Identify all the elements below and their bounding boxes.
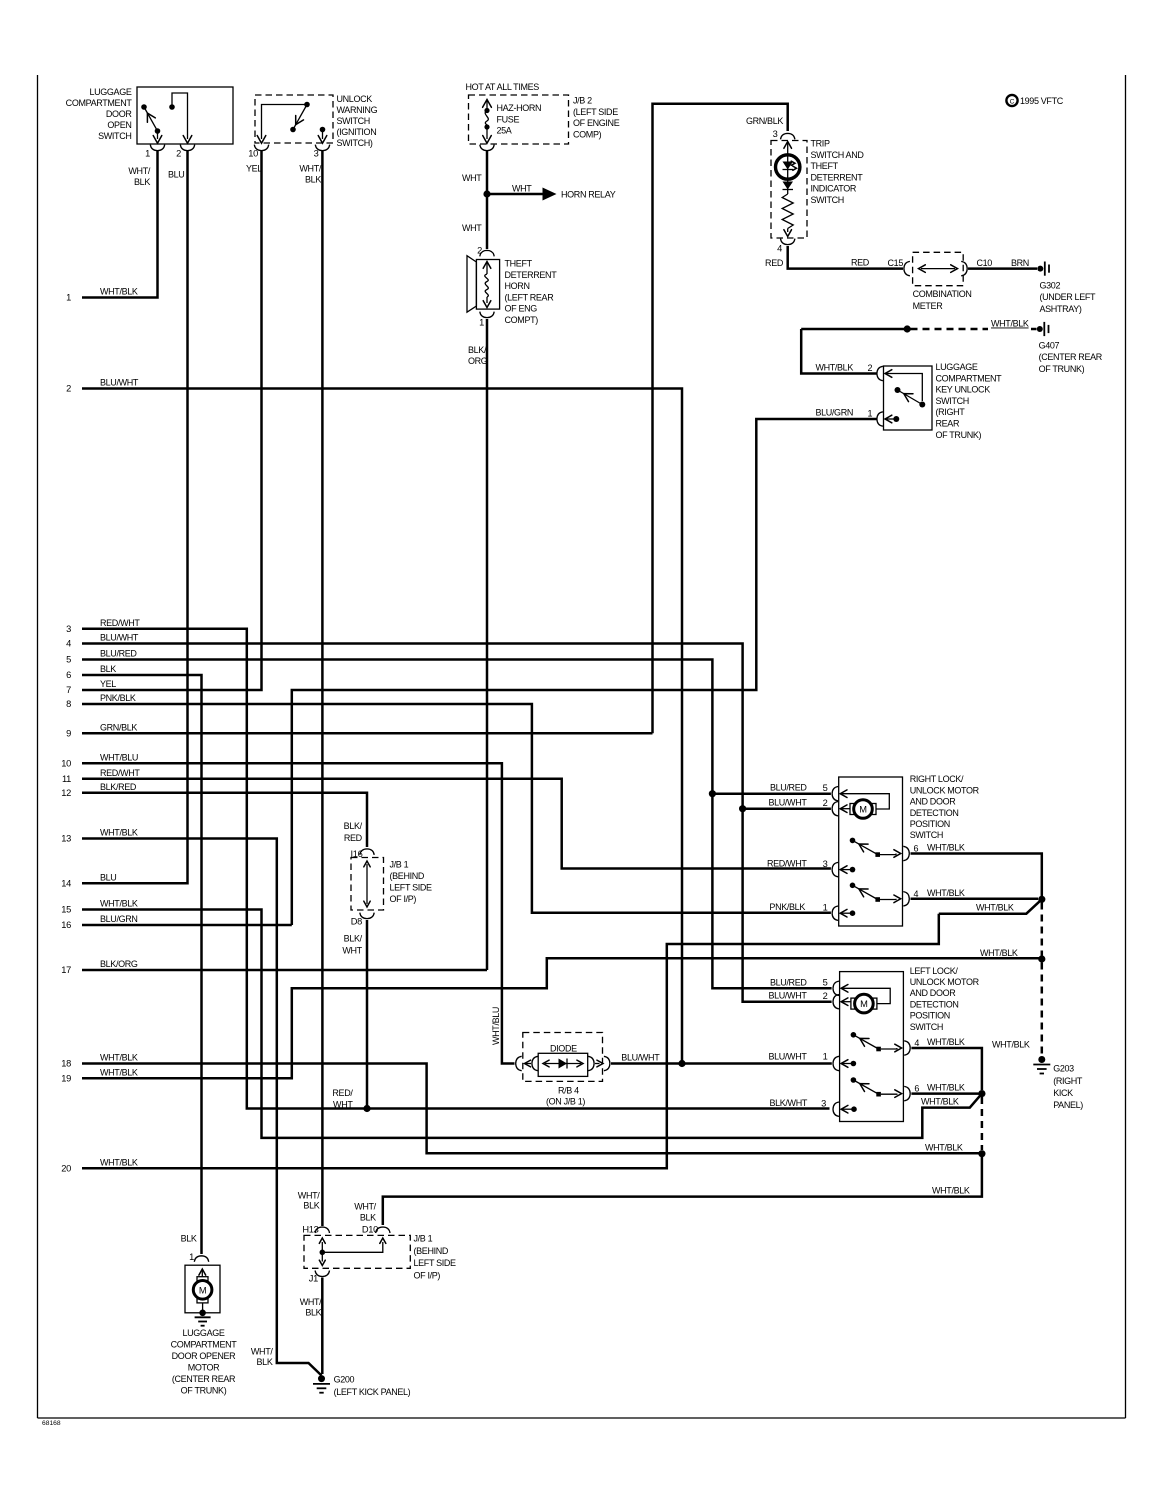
- theft deterrent horn body box: [476, 260, 499, 310]
- svg-text:3: 3: [823, 859, 828, 869]
- svg-text:(BEHIND: (BEHIND: [414, 1246, 449, 1256]
- svg-text:BLU: BLU: [168, 170, 184, 180]
- svg-text:16: 16: [61, 920, 71, 930]
- border left: [37, 75, 39, 1418]
- wire 8 PNK/BLK: [82, 704, 831, 913]
- JB1 internal H13 arrow: [319, 1238, 325, 1252]
- wire WHT/BLK slant to junction: [939, 899, 1042, 913]
- svg-text:OF TRUNK): OF TRUNK): [181, 1386, 227, 1396]
- svg-text:(CENTER REAR: (CENTER REAR: [1039, 352, 1103, 362]
- svg-text:4: 4: [777, 244, 782, 254]
- svg-text:UNLOCK: UNLOCK: [337, 94, 373, 104]
- wire label BLK/RED JB1: [344, 821, 363, 843]
- svg-text:KEY UNLOCK: KEY UNLOCK: [936, 385, 991, 395]
- svg-text:4: 4: [66, 639, 71, 649]
- svg-text:WHT/: WHT/: [298, 1190, 320, 1200]
- svg-text:14: 14: [61, 879, 71, 889]
- key switch lever: [895, 387, 923, 405]
- fuse HAZ-HORN 25A symbol: [483, 100, 492, 144]
- svg-text:19: 19: [61, 1074, 71, 1084]
- right motor pin3 internal: [840, 866, 855, 874]
- wire 18 WHT/BLK: [82, 1064, 982, 1154]
- node WHT junction: [483, 190, 490, 197]
- node 3 wire RED/WHT: [66, 618, 140, 634]
- svg-text:SWITCH: SWITCH: [811, 195, 844, 205]
- svg-text:HORN RELAY: HORN RELAY: [561, 190, 616, 200]
- svg-text:INDICATOR: INDICATOR: [811, 184, 857, 194]
- left lock switch1 pole: [851, 1032, 857, 1038]
- svg-text:BLK/: BLK/: [468, 345, 487, 355]
- node 20 wire WHT/BLK: [61, 1158, 138, 1174]
- svg-text:REAR: REAR: [936, 419, 960, 429]
- svg-text:POSITION: POSITION: [910, 1011, 950, 1021]
- svg-text:(UNDER LEFT: (UNDER LEFT: [1040, 292, 1097, 302]
- wire 9 GRN/BLK: [82, 732, 653, 735]
- right motor pin1 connector: [832, 906, 838, 920]
- svg-text:DETECTION: DETECTION: [910, 808, 959, 818]
- svg-text:(IGNITION: (IGNITION: [337, 127, 377, 137]
- S1 pin2 connector: [180, 145, 194, 151]
- svg-text:WHT/BLK: WHT/BLK: [815, 363, 853, 373]
- svg-text:COMPARTMENT: COMPARTMENT: [936, 373, 1003, 383]
- svg-text:AND DOOR: AND DOOR: [910, 797, 957, 807]
- svg-text:COMP): COMP): [573, 129, 602, 139]
- JB1 D10 connector: [376, 1227, 390, 1233]
- svg-text:WHT/BLK: WHT/BLK: [991, 319, 1029, 329]
- wire 20 WHT/BLK: [82, 914, 939, 1169]
- right lock unlock motor box: [839, 777, 903, 926]
- svg-text:OF TRUNK): OF TRUNK): [936, 430, 982, 440]
- svg-text:25A: 25A: [497, 126, 512, 136]
- svg-text:BLK/: BLK/: [344, 934, 363, 944]
- svg-text:C15: C15: [888, 258, 904, 268]
- svg-text:J/B 1: J/B 1: [390, 860, 409, 870]
- wire label WHT/BLK D10: [354, 1202, 376, 1223]
- svg-text:SWITCH: SWITCH: [910, 830, 943, 840]
- svg-text:HAZ-HORN: HAZ-HORN: [497, 103, 542, 113]
- svg-text:WHT/BLK: WHT/BLK: [100, 1068, 138, 1078]
- svg-text:SWITCH: SWITCH: [98, 131, 131, 141]
- svg-text:15: 15: [61, 905, 71, 915]
- JB1 internal node: [320, 1250, 326, 1256]
- left motor pin6 connector: [904, 1086, 910, 1100]
- svg-text:J1: J1: [309, 1274, 318, 1284]
- wire 4 BLU/WHT: [82, 644, 832, 1002]
- svg-text:WHT/BLK: WHT/BLK: [932, 1186, 970, 1196]
- svg-text:8: 8: [66, 699, 71, 709]
- wire 10 WHT/BLU: [82, 763, 515, 1063]
- key unlock switch pin1 connector: [877, 412, 883, 426]
- svg-text:BLK: BLK: [303, 1201, 319, 1211]
- S1 pin1 connector: [150, 145, 164, 151]
- svg-text:(CENTER REAR: (CENTER REAR: [172, 1374, 236, 1384]
- node right lock ground junction: [1038, 896, 1045, 903]
- svg-text:12: 12: [61, 788, 71, 798]
- node 16 wire BLU/GRN: [61, 914, 137, 930]
- svg-text:BLU/WHT: BLU/WHT: [100, 378, 139, 388]
- svg-text:68168: 68168: [42, 1420, 61, 1427]
- svg-text:BLU/RED: BLU/RED: [770, 977, 807, 987]
- svg-text:YEL: YEL: [246, 164, 262, 174]
- svg-text:3: 3: [314, 149, 319, 159]
- svg-text:KICK: KICK: [1053, 1088, 1073, 1098]
- opener motor case ground: [195, 1310, 211, 1326]
- wire label BLK/WHT D8: [342, 934, 362, 956]
- right motor pin5 connector: [832, 787, 838, 801]
- wire 2 BLU/WHT: [82, 389, 682, 1064]
- svg-text:RED: RED: [765, 258, 784, 268]
- node D8 to RED/WHT junction: [363, 1105, 370, 1112]
- JB1 internal cross wire: [322, 1238, 386, 1252]
- opener motor internal: [193, 1269, 212, 1313]
- S2 internal wire pin10: [257, 105, 307, 144]
- svg-text:13: 13: [61, 834, 71, 844]
- wire 15 WHT/BLK: [82, 910, 982, 1138]
- svg-text:(LEFT KICK PANEL): (LEFT KICK PANEL): [334, 1387, 411, 1397]
- wire 13 WHT/BLK: [82, 839, 322, 1376]
- svg-text:BLK/WHT: BLK/WHT: [769, 1098, 807, 1108]
- J/B 1 internal arrow: [364, 861, 370, 907]
- svg-text:J/B 2: J/B 2: [573, 96, 592, 106]
- wire GRN/BLK top feed: [653, 104, 788, 734]
- wire WHT/BLK solid to splice: [801, 328, 907, 331]
- JB1 I16 connector: [360, 849, 374, 855]
- svg-text:YEL: YEL: [100, 679, 116, 689]
- wire RED trip to meter: [788, 246, 903, 269]
- svg-text:BLU: BLU: [100, 873, 116, 883]
- wire 3 RED/WHT: [82, 629, 830, 1109]
- svg-text:(RIGHT: (RIGHT: [936, 407, 966, 417]
- svg-text:ORG: ORG: [468, 356, 488, 366]
- left motor pin5 internal: [841, 985, 890, 1004]
- wire 12 BLK/RED: [82, 793, 367, 847]
- svg-text:WHT/: WHT/: [300, 1297, 322, 1307]
- svg-text:WHT: WHT: [333, 1100, 353, 1110]
- svg-text:WHT/BLK: WHT/BLK: [100, 1158, 138, 1168]
- svg-text:2: 2: [823, 798, 828, 808]
- svg-text:WHT/BLK: WHT/BLK: [921, 1097, 959, 1107]
- right motor pin6 connector: [903, 846, 909, 860]
- wire WHT/BLK J1 to G200: [321, 1278, 324, 1375]
- svg-text:M: M: [860, 999, 867, 1009]
- svg-text:1: 1: [66, 293, 71, 303]
- svg-text:C: C: [1010, 99, 1015, 106]
- svg-text:DOOR: DOOR: [106, 109, 132, 119]
- R/B 4 label: [546, 1085, 585, 1106]
- key unlock switch pin2 connector: [877, 366, 883, 380]
- J/B 2 dashed box: [469, 95, 569, 144]
- wire WHT junction to horn: [486, 194, 489, 249]
- svg-text:6: 6: [914, 1084, 919, 1094]
- svg-text:WHT/: WHT/: [128, 166, 150, 176]
- svg-text:COMBINATION: COMBINATION: [913, 289, 972, 299]
- node splice G407: [904, 325, 911, 332]
- svg-text:4: 4: [914, 1038, 919, 1048]
- wire 5 BLU/RED: [82, 660, 832, 989]
- luggage compartment key unlock switch box: [884, 366, 933, 430]
- svg-text:G407: G407: [1039, 341, 1060, 351]
- wire BLU/WHT diode out: [611, 1062, 832, 1065]
- svg-text:SWITCH: SWITCH: [936, 396, 969, 406]
- wire BLU/GRN key switch chain: [292, 419, 877, 925]
- svg-text:18: 18: [61, 1059, 71, 1069]
- JB1 D8 connector: [360, 913, 374, 919]
- svg-text:OPEN: OPEN: [107, 120, 131, 130]
- svg-text:(BEHIND: (BEHIND: [390, 871, 425, 881]
- wire label WHT/BLK H13: [298, 1190, 320, 1210]
- combination meter dashed box: [913, 252, 964, 285]
- diode input connectors: [516, 1056, 538, 1070]
- svg-text:PNK/BLK: PNK/BLK: [100, 693, 136, 703]
- JB1 H13 connector: [315, 1227, 329, 1233]
- left lock switch1 output: [881, 1044, 902, 1052]
- wire WHT/BLK G407 branch down: [801, 329, 876, 374]
- wire BLK/WHT D8 down: [366, 920, 369, 1109]
- svg-text:MOTOR: MOTOR: [188, 1363, 220, 1373]
- svg-text:3: 3: [773, 129, 778, 139]
- right lock switch2 lever: [853, 885, 881, 902]
- node 14 wire BLU: [61, 873, 116, 889]
- node 8 wire PNK/BLK: [66, 693, 136, 709]
- svg-text:G200: G200: [334, 1375, 355, 1385]
- wire 14 BLU: [82, 150, 188, 883]
- wire WHT to horn relay: [487, 188, 557, 201]
- J/B 1 dashed box I16-D8: [351, 858, 384, 911]
- svg-text:5: 5: [823, 978, 828, 988]
- svg-text:M: M: [859, 805, 866, 815]
- node 1 wire WHT/BLK: [66, 287, 138, 303]
- svg-text:SWITCH: SWITCH: [337, 116, 370, 126]
- node 11 wire RED/WHT: [62, 768, 140, 784]
- svg-text:BRN: BRN: [1011, 258, 1029, 268]
- svg-text:DETECTION: DETECTION: [910, 999, 959, 1009]
- right motor pin3 connector: [832, 862, 838, 876]
- J/B 1 dashed box H13-J1: [304, 1235, 410, 1268]
- wire WHT/BLK pin3 to H13: [321, 150, 324, 1226]
- svg-text:BLU/WHT: BLU/WHT: [768, 798, 807, 808]
- svg-text:RIGHT LOCK/: RIGHT LOCK/: [910, 774, 964, 784]
- ground G302 symbol: [1037, 262, 1049, 276]
- key switch lower contact: [919, 402, 925, 408]
- svg-text:LEFT SIDE: LEFT SIDE: [414, 1258, 457, 1268]
- luggage compartment door open switch S1 box: [137, 87, 233, 144]
- left motor pin3 connector: [833, 1102, 839, 1116]
- svg-text:J/B 1: J/B 1: [414, 1234, 433, 1244]
- svg-text:BLU/GRN: BLU/GRN: [815, 408, 853, 418]
- svg-text:1: 1: [189, 1252, 194, 1262]
- svg-text:WHT: WHT: [342, 946, 362, 956]
- svg-text:1: 1: [479, 318, 484, 328]
- svg-text:AND DOOR: AND DOOR: [910, 988, 957, 998]
- node 19 wire WHT/BLK: [61, 1068, 138, 1084]
- svg-text:BLK/: BLK/: [344, 821, 363, 831]
- wire WHT/BLK pin4 left: [911, 1048, 982, 1090]
- right motor M symbol: [850, 800, 876, 819]
- node 15 wire WHT/BLK: [61, 899, 138, 915]
- svg-text:UNLOCK MOTOR: UNLOCK MOTOR: [910, 785, 980, 795]
- right motor pin5 internal: [840, 790, 889, 809]
- svg-text:BLK: BLK: [257, 1357, 273, 1367]
- node 12 wire BLK/RED: [61, 782, 137, 798]
- theft deterrent horn speaker cone: [467, 256, 476, 313]
- svg-text:RED/: RED/: [332, 1088, 353, 1098]
- diode output connectors: [588, 1056, 610, 1070]
- svg-text:2: 2: [66, 384, 71, 394]
- wire dashed to G203 upper: [1041, 903, 1044, 956]
- svg-text:(ON J/B 1): (ON J/B 1): [546, 1096, 585, 1106]
- S2 pin3 connector: [315, 145, 329, 151]
- copyright 1995 VFTC: [1006, 95, 1063, 106]
- svg-text:TRIP: TRIP: [811, 139, 830, 149]
- left motor pin2 connector: [833, 995, 839, 1009]
- combination meter connector C15: [904, 261, 910, 275]
- svg-text:BLK: BLK: [305, 1308, 321, 1318]
- svg-text:D8: D8: [351, 917, 362, 927]
- ground G203 symbol: [1033, 1056, 1050, 1074]
- svg-text:17: 17: [61, 965, 71, 975]
- svg-text:DETERRENT: DETERRENT: [505, 270, 558, 280]
- trip switch pin3 connector: [781, 133, 795, 139]
- wire dashed to G203 lower: [1041, 963, 1044, 1056]
- svg-text:BLU/RED: BLU/RED: [100, 649, 137, 659]
- wire WHT/BLK pin4 right: [911, 898, 1039, 901]
- left motor pin3 internal: [841, 1105, 857, 1113]
- svg-text:POSITION: POSITION: [910, 819, 950, 829]
- svg-text:BLU/WHT: BLU/WHT: [768, 991, 807, 1001]
- opener motor pin1 connector: [194, 1256, 208, 1262]
- horn pin2 connector: [480, 250, 494, 256]
- left lock unlock motor box: [840, 972, 904, 1122]
- svg-text:WHT/BLK: WHT/BLK: [992, 1040, 1030, 1050]
- S1 contact pole pin1: [141, 104, 147, 110]
- svg-text:5: 5: [823, 783, 828, 793]
- wire WHT/BLK dashed to G407: [911, 328, 1037, 331]
- svg-text:DOOR OPENER: DOOR OPENER: [172, 1351, 237, 1361]
- svg-text:WHT/BLK: WHT/BLK: [100, 899, 138, 909]
- right motor pin1 internal: [840, 909, 855, 917]
- left lock switch2 pole: [851, 1077, 857, 1083]
- left motor pin5 connector: [833, 981, 839, 995]
- svg-text:WHT/BLK: WHT/BLK: [980, 948, 1018, 958]
- wire 11 RED/WHT: [82, 779, 831, 869]
- ground G200 label: [334, 1375, 411, 1397]
- wire 6 BLK: [82, 675, 202, 1254]
- svg-text:7: 7: [66, 685, 71, 695]
- svg-text:FUSE: FUSE: [497, 114, 520, 124]
- svg-text:WHT/BLK: WHT/BLK: [100, 287, 138, 297]
- left lock switch2 lever: [853, 1080, 880, 1097]
- svg-text:WHT/BLK: WHT/BLK: [927, 1083, 965, 1093]
- svg-text:SWITCH: SWITCH: [910, 1022, 943, 1032]
- wire label RED/WHT lower: [332, 1088, 353, 1110]
- svg-text:1: 1: [823, 902, 828, 912]
- svg-text:OF I/P): OF I/P): [414, 1271, 441, 1281]
- svg-text:2: 2: [176, 149, 181, 159]
- svg-text:RED/WHT: RED/WHT: [100, 618, 140, 628]
- node 18 wire WHT/BLK: [61, 1053, 138, 1069]
- svg-text:RED/WHT: RED/WHT: [767, 859, 807, 869]
- node diode BLU/WHT junction: [678, 1060, 685, 1067]
- svg-text:HOT AT ALL TIMES: HOT AT ALL TIMES: [466, 82, 540, 92]
- luggage compartment door opener motor box: [185, 1265, 220, 1313]
- resistor symbol trip switch: [782, 194, 793, 237]
- svg-text:WHT/: WHT/: [299, 164, 321, 174]
- ground G200 symbol: [313, 1375, 330, 1393]
- svg-text:WHT/: WHT/: [251, 1346, 273, 1356]
- svg-text:LEFT SIDE: LEFT SIDE: [390, 883, 433, 893]
- svg-text:RED/WHT: RED/WHT: [100, 768, 140, 778]
- svg-text:11: 11: [62, 774, 71, 784]
- svg-text:HORN: HORN: [505, 281, 530, 291]
- node 13 wire WHT/BLK: [61, 828, 138, 844]
- svg-text:2: 2: [477, 246, 482, 256]
- left motor pin1 internal: [841, 1060, 856, 1068]
- node y958 junction: [1038, 955, 1045, 962]
- right lock switch1 pole: [850, 838, 856, 844]
- wire 16 BLU/GRN: [82, 924, 292, 927]
- svg-text:BLK: BLK: [134, 177, 150, 187]
- right lock switch1 lever: [853, 840, 881, 856]
- svg-text:4: 4: [914, 889, 919, 899]
- svg-text:RED: RED: [851, 258, 870, 268]
- border right: [1125, 75, 1127, 1418]
- combination meter connector C10: [961, 261, 967, 275]
- svg-text:THEFT: THEFT: [505, 259, 533, 269]
- wire BLK/ORG horn to wire17: [486, 319, 489, 970]
- R/B 4 dashed box: [523, 1033, 603, 1082]
- wire label WHT/BLK J1: [300, 1297, 322, 1317]
- svg-text:PNK/BLK: PNK/BLK: [769, 902, 805, 912]
- svg-text:M: M: [199, 1285, 206, 1295]
- svg-text:6: 6: [914, 844, 919, 854]
- diode internal symbol: [543, 1059, 583, 1069]
- S1 switch lever: [144, 107, 160, 134]
- node 4 wire BLU/WHT: [66, 633, 139, 649]
- node junction wire4 right pin2: [739, 805, 746, 812]
- svg-text:9: 9: [66, 729, 71, 739]
- svg-text:WHT/BLK: WHT/BLK: [927, 1037, 965, 1047]
- svg-text:WHT/BLK: WHT/BLK: [100, 1053, 138, 1063]
- svg-text:OF ENGINE: OF ENGINE: [573, 118, 620, 128]
- svg-text:BLU/WHT: BLU/WHT: [768, 1052, 807, 1062]
- S2 pin3 contact: [320, 127, 326, 133]
- diode symbol below LED: [783, 179, 794, 194]
- svg-text:BLU/WHT: BLU/WHT: [621, 1053, 660, 1063]
- node 17 wire BLK/ORG: [61, 959, 138, 975]
- wire WHT/BLK to D10: [383, 1154, 982, 1225]
- svg-text:METER: METER: [913, 301, 944, 311]
- wire 17 BLK/ORG: [82, 969, 487, 972]
- S1 pin1 stem: [153, 131, 162, 143]
- svg-text:LEFT LOCK/: LEFT LOCK/: [910, 966, 959, 976]
- svg-text:GRN/BLK: GRN/BLK: [746, 116, 783, 126]
- svg-text:COMPARTMENT: COMPARTMENT: [171, 1340, 238, 1350]
- horn internal coil: [483, 262, 491, 308]
- svg-text:LUGGAGE: LUGGAGE: [182, 1328, 224, 1338]
- svg-text:COMPT): COMPT): [505, 315, 539, 325]
- wire label WHT/BLK pin3: [299, 164, 321, 185]
- trip switch and theft deterrent indicator switch dashed box: [771, 141, 807, 239]
- node 10 wire WHT/BLU: [61, 753, 138, 769]
- horn pin1 connector: [480, 312, 494, 318]
- svg-text:ASHTRAY): ASHTRAY): [1040, 304, 1082, 314]
- svg-text:WHT/BLK: WHT/BLK: [927, 888, 965, 898]
- svg-text:UNLOCK MOTOR: UNLOCK MOTOR: [910, 977, 980, 987]
- svg-text:RED: RED: [344, 833, 363, 843]
- left lock switch2 output: [881, 1090, 902, 1098]
- svg-text:WHT: WHT: [462, 223, 482, 233]
- S2 contact pole: [304, 102, 310, 108]
